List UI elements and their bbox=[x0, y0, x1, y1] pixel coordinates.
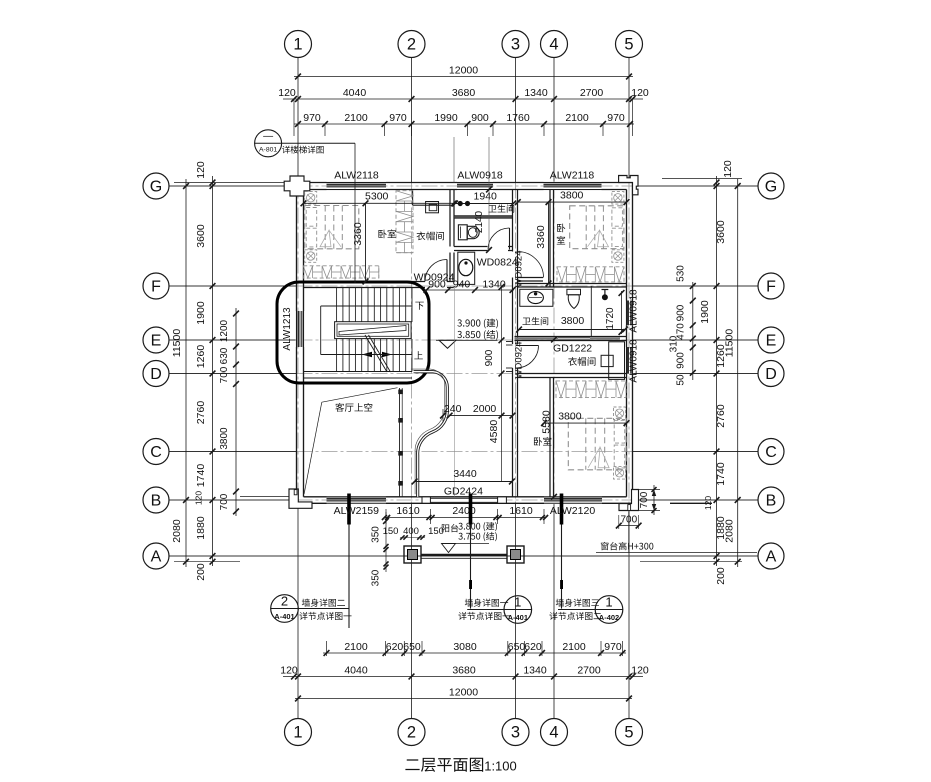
svg-text:D: D bbox=[765, 366, 777, 383]
svg-text:940: 940 bbox=[453, 279, 471, 291]
svg-text:3600: 3600 bbox=[715, 220, 727, 244]
svg-text:3: 3 bbox=[511, 724, 520, 742]
svg-text:1760: 1760 bbox=[506, 112, 530, 124]
svg-text:1610: 1610 bbox=[509, 505, 533, 517]
svg-text:3360: 3360 bbox=[535, 225, 547, 249]
svg-text:240: 240 bbox=[444, 403, 462, 415]
svg-text:3080: 3080 bbox=[453, 641, 477, 653]
svg-text:C: C bbox=[765, 444, 777, 461]
svg-text:4040: 4040 bbox=[343, 87, 367, 99]
svg-text:650: 650 bbox=[508, 641, 526, 653]
svg-text:WD0824: WD0824 bbox=[477, 257, 518, 269]
svg-text:3600: 3600 bbox=[195, 224, 207, 248]
svg-text:1940: 1940 bbox=[474, 191, 498, 203]
svg-text:D: D bbox=[150, 366, 162, 383]
svg-text:3: 3 bbox=[511, 36, 520, 54]
svg-text:B: B bbox=[151, 493, 162, 510]
svg-text:ALW0918: ALW0918 bbox=[629, 289, 640, 333]
svg-text:150: 150 bbox=[383, 526, 399, 537]
svg-text:2100: 2100 bbox=[344, 112, 368, 124]
svg-text:A: A bbox=[766, 549, 777, 566]
svg-text:1740: 1740 bbox=[715, 462, 727, 486]
svg-text:A-801: A-801 bbox=[259, 147, 277, 154]
svg-text:970: 970 bbox=[604, 641, 622, 653]
svg-text:3680: 3680 bbox=[452, 665, 476, 677]
svg-text:11500: 11500 bbox=[724, 329, 736, 358]
svg-text:120: 120 bbox=[195, 161, 207, 179]
svg-text:ALW2159: ALW2159 bbox=[334, 505, 379, 517]
svg-text:1900: 1900 bbox=[699, 300, 711, 324]
svg-text:2760: 2760 bbox=[715, 404, 727, 428]
svg-text:2140: 2140 bbox=[474, 210, 485, 233]
svg-text:3800: 3800 bbox=[558, 411, 582, 423]
svg-text:120: 120 bbox=[280, 665, 298, 677]
svg-text:120: 120 bbox=[703, 496, 713, 510]
svg-text:1: 1 bbox=[293, 36, 302, 54]
svg-text:G: G bbox=[765, 179, 777, 196]
svg-text:1740: 1740 bbox=[195, 464, 207, 488]
svg-text:2080: 2080 bbox=[724, 519, 736, 543]
svg-text:1340: 1340 bbox=[523, 665, 547, 677]
svg-text:350: 350 bbox=[371, 569, 382, 586]
svg-text:530: 530 bbox=[676, 265, 687, 282]
svg-text:4: 4 bbox=[549, 724, 558, 742]
svg-text:WD0924: WD0924 bbox=[513, 342, 524, 379]
svg-text:970: 970 bbox=[303, 112, 321, 124]
svg-text:2700: 2700 bbox=[577, 665, 601, 677]
svg-text:4: 4 bbox=[549, 36, 558, 54]
svg-text:1260: 1260 bbox=[195, 345, 207, 369]
svg-text:5: 5 bbox=[624, 36, 633, 54]
svg-text:900: 900 bbox=[484, 349, 495, 366]
svg-text:ALW0918: ALW0918 bbox=[457, 170, 502, 182]
svg-text:3800: 3800 bbox=[219, 427, 230, 450]
svg-text:A-401: A-401 bbox=[274, 612, 294, 621]
svg-text:G: G bbox=[150, 179, 162, 196]
svg-text:2760: 2760 bbox=[195, 401, 207, 425]
svg-text:2: 2 bbox=[407, 724, 416, 742]
svg-text:120: 120 bbox=[278, 87, 296, 99]
svg-text:ALW2120: ALW2120 bbox=[550, 505, 595, 517]
svg-text:F: F bbox=[151, 279, 161, 296]
svg-text:120: 120 bbox=[194, 491, 204, 505]
svg-text:—: — bbox=[263, 131, 273, 142]
svg-text:1900: 1900 bbox=[195, 301, 207, 325]
svg-text:620: 620 bbox=[524, 641, 542, 653]
svg-text:900: 900 bbox=[471, 112, 489, 124]
svg-text:700: 700 bbox=[219, 493, 230, 510]
svg-text:1880: 1880 bbox=[195, 516, 207, 540]
svg-text:WD0924: WD0924 bbox=[414, 272, 455, 284]
svg-text:900: 900 bbox=[676, 304, 687, 321]
svg-text:200: 200 bbox=[195, 563, 207, 581]
svg-text:650: 650 bbox=[403, 641, 421, 653]
svg-text:2700: 2700 bbox=[580, 87, 604, 99]
svg-text:700: 700 bbox=[639, 491, 650, 508]
svg-text:970: 970 bbox=[389, 112, 407, 124]
svg-text:E: E bbox=[151, 333, 162, 350]
svg-text:WD0924: WD0924 bbox=[514, 251, 525, 288]
svg-text:700: 700 bbox=[219, 366, 230, 383]
svg-text:5: 5 bbox=[624, 724, 633, 742]
svg-text:A: A bbox=[151, 549, 162, 566]
svg-text:ALW0918: ALW0918 bbox=[629, 339, 640, 383]
svg-text:C: C bbox=[150, 444, 162, 461]
svg-text:1200: 1200 bbox=[219, 319, 230, 342]
svg-text:GD1222: GD1222 bbox=[553, 343, 592, 355]
svg-text:A-402: A-402 bbox=[599, 613, 619, 622]
svg-text:1: 1 bbox=[514, 594, 521, 609]
svg-text:3440: 3440 bbox=[453, 468, 477, 480]
svg-text:E: E bbox=[766, 333, 777, 350]
svg-text:1: 1 bbox=[293, 724, 302, 742]
svg-text:310: 310 bbox=[669, 335, 680, 352]
svg-text:1340: 1340 bbox=[524, 87, 548, 99]
svg-text:4040: 4040 bbox=[344, 665, 368, 677]
svg-text:3800: 3800 bbox=[560, 189, 584, 201]
svg-text:GD2424: GD2424 bbox=[444, 485, 483, 497]
svg-text:2100: 2100 bbox=[565, 112, 589, 124]
svg-text:5580: 5580 bbox=[541, 410, 553, 434]
svg-text:2: 2 bbox=[407, 36, 416, 54]
svg-text:B: B bbox=[766, 493, 777, 510]
svg-text:400: 400 bbox=[403, 526, 419, 537]
svg-text:ALW2118: ALW2118 bbox=[550, 170, 595, 182]
svg-text:120: 120 bbox=[722, 160, 734, 178]
svg-text:2000: 2000 bbox=[473, 403, 497, 415]
svg-text:12000: 12000 bbox=[449, 687, 478, 699]
svg-text:1720: 1720 bbox=[605, 307, 616, 330]
svg-text:630: 630 bbox=[219, 347, 230, 364]
svg-text:4580: 4580 bbox=[488, 420, 500, 444]
svg-text:620: 620 bbox=[386, 641, 404, 653]
svg-text:2100: 2100 bbox=[344, 641, 368, 653]
svg-text:350: 350 bbox=[371, 526, 382, 543]
svg-text:150: 150 bbox=[428, 526, 444, 537]
svg-text:1340: 1340 bbox=[482, 279, 506, 291]
svg-text:2100: 2100 bbox=[562, 641, 586, 653]
svg-text:2080: 2080 bbox=[171, 519, 183, 543]
svg-text:2: 2 bbox=[281, 593, 288, 608]
svg-text:ALW1213: ALW1213 bbox=[282, 307, 293, 351]
svg-text:12000: 12000 bbox=[449, 65, 478, 77]
svg-text:1:100: 1:100 bbox=[484, 759, 517, 774]
svg-text:1990: 1990 bbox=[434, 112, 458, 124]
svg-text:50: 50 bbox=[676, 374, 687, 386]
svg-text:200: 200 bbox=[715, 567, 727, 585]
svg-text:3360: 3360 bbox=[352, 222, 364, 246]
svg-text:11500: 11500 bbox=[171, 329, 183, 358]
svg-text:1: 1 bbox=[605, 594, 612, 609]
svg-text:120: 120 bbox=[631, 665, 649, 677]
svg-text:120: 120 bbox=[631, 87, 649, 99]
svg-text:1610: 1610 bbox=[396, 505, 420, 517]
svg-text:3800: 3800 bbox=[561, 315, 585, 327]
svg-text:3680: 3680 bbox=[452, 87, 476, 99]
svg-text:2400: 2400 bbox=[452, 505, 476, 517]
svg-text:700: 700 bbox=[620, 515, 637, 526]
svg-text:970: 970 bbox=[607, 112, 625, 124]
svg-text:900: 900 bbox=[676, 352, 687, 369]
svg-text:F: F bbox=[766, 279, 776, 296]
svg-text:A-401: A-401 bbox=[508, 613, 528, 622]
svg-text:ALW2118: ALW2118 bbox=[334, 170, 379, 182]
